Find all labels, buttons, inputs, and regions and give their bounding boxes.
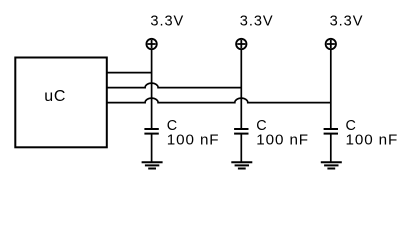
wire vertical V3 xyxy=(330,50,332,129)
capacitor C3 xyxy=(324,129,338,162)
svg-text:100 nF: 100 nF xyxy=(346,132,399,149)
svg-text:3.3V: 3.3V xyxy=(150,13,184,29)
capacitor C1 xyxy=(144,129,158,162)
ground G3 xyxy=(321,162,342,168)
svg-text:100 nF: 100 nF xyxy=(256,132,309,149)
wire W2 (middle pin to node 2, hop over vertical 1) xyxy=(107,83,242,87)
svg-text:3.3V: 3.3V xyxy=(240,13,274,29)
power symbol P2 3.3V xyxy=(236,39,246,49)
wire vertical V1 xyxy=(151,50,153,129)
svg-text:3.3V: 3.3V xyxy=(330,13,364,29)
wire W3 (bottom pin to node 3, hops over verticals 1 and 2) xyxy=(107,98,331,103)
power symbol P1 3.3V xyxy=(146,39,156,49)
uC box U1 xyxy=(15,58,107,148)
wire vertical V2 xyxy=(240,50,242,129)
capacitor C2 xyxy=(234,129,248,162)
svg-text:uC: uC xyxy=(44,88,66,105)
ground G1 xyxy=(142,162,163,168)
svg-text:100 nF: 100 nF xyxy=(167,132,220,149)
power symbol P3 3.3V xyxy=(326,39,336,49)
wire W1 (top pin to node 1) xyxy=(107,72,152,74)
ground G2 xyxy=(231,162,252,168)
